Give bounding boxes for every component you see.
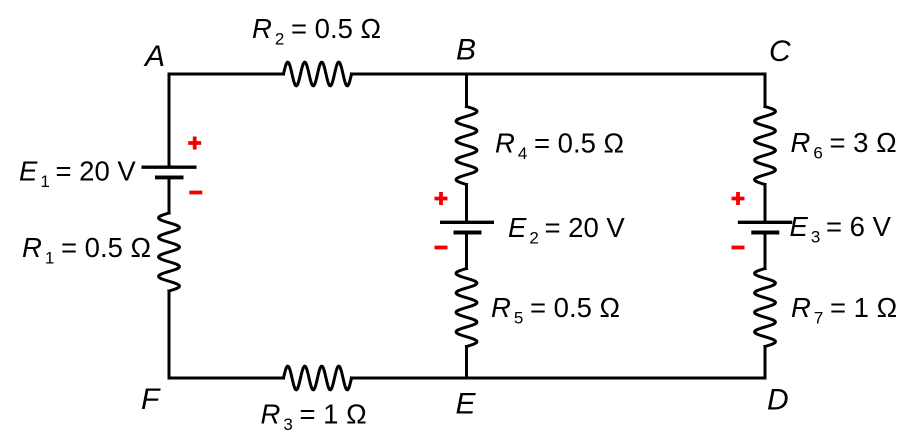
svg-text:A: A [143,40,165,73]
svg-text:R6 = 3 Ω: R6 = 3 Ω [791,127,897,163]
svg-text:F: F [141,383,161,416]
svg-text:E3 = 6 V: E3 = 6 V [790,211,892,247]
svg-text:R3 = 1 Ω: R3 = 1 Ω [261,399,367,435]
svg-text:E: E [456,388,477,421]
svg-text:D: D [767,384,789,417]
svg-text:R7 = 1 Ω: R7 = 1 Ω [791,292,897,328]
svg-text:R4 = 0.5 Ω: R4 = 0.5 Ω [495,128,624,164]
svg-text:R2 = 0.5 Ω: R2 = 0.5 Ω [252,13,381,49]
svg-text:C: C [769,35,791,68]
svg-text:E1 = 20 V: E1 = 20 V [19,156,136,192]
svg-text:E2 = 20 V: E2 = 20 V [508,212,625,248]
svg-text:B: B [456,34,476,67]
svg-text:R5 = 0.5 Ω: R5 = 0.5 Ω [491,292,620,328]
svg-text:R1 = 0.5 Ω: R1 = 0.5 Ω [22,232,151,268]
